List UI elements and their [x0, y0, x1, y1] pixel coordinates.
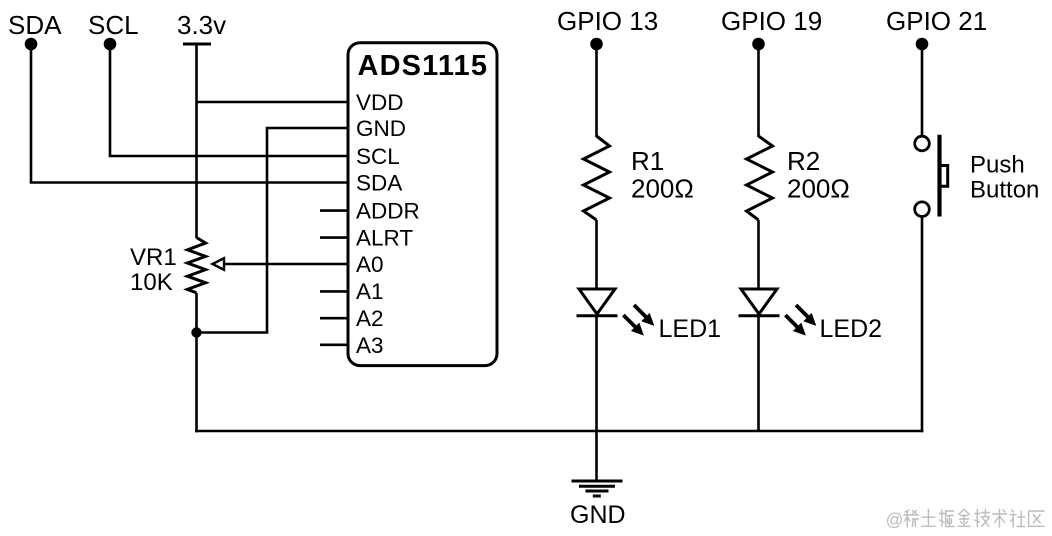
svg-text:LED2: LED2: [820, 315, 883, 343]
svg-text:GND: GND: [356, 116, 406, 141]
wire VDD horizontal: [197, 101, 349, 104]
potentiometer VR1: [187, 238, 205, 293]
svg-text:ALRT: ALRT: [356, 226, 413, 251]
watermark: [886, 509, 1045, 529]
svg-text:SDA: SDA: [356, 171, 402, 196]
svg-text:LED1: LED1: [659, 315, 722, 343]
wire 3.3v vertical down to VR1: [195, 44, 198, 238]
svg-text:VDD: VDD: [356, 90, 404, 115]
resistor R1: [584, 136, 610, 220]
svg-text:GPIO 21: GPIO 21: [886, 6, 987, 36]
svg-text:A1: A1: [356, 279, 384, 304]
wire SCL vertical: [109, 44, 112, 156]
node SCL: [88, 10, 139, 50]
svg-text:200Ω: 200Ω: [787, 174, 850, 204]
svg-text:Push: Push: [970, 152, 1025, 179]
svg-text:SDA: SDA: [8, 10, 62, 40]
node GPIO 19: [721, 6, 822, 50]
svg-text:GND: GND: [570, 501, 626, 529]
svg-text:A3: A3: [356, 333, 384, 358]
svg-text:200Ω: 200Ω: [631, 174, 694, 204]
ground symbol: [572, 481, 623, 496]
wire GND to VR1 bottom horizontal: [197, 331, 269, 334]
svg-text:@: @: [886, 510, 904, 530]
wire LED2 to rail: [757, 316, 760, 431]
svg-text:GPIO 19: GPIO 19: [721, 6, 822, 36]
pin A2: [320, 306, 384, 331]
wire GND pin horizontal: [267, 127, 348, 130]
svg-text:SCL: SCL: [88, 10, 139, 40]
wire GPIO19 to R2: [757, 44, 760, 137]
power 3.3v: [177, 10, 226, 44]
label R1 value: [631, 146, 694, 204]
pin A1: [320, 279, 384, 304]
wire GPIO13 to R1: [595, 44, 598, 137]
wire SCL horizontal to pin: [109, 155, 348, 158]
resistor R2: [747, 136, 773, 220]
svg-text:Button: Button: [970, 176, 1039, 203]
wire rail to ground: [595, 431, 598, 481]
svg-text:SCL: SCL: [356, 144, 400, 169]
wire bottom rail: [195, 430, 923, 433]
svg-text:A0: A0: [356, 252, 384, 277]
node SDA: [8, 10, 62, 50]
svg-text:R1: R1: [631, 146, 664, 176]
svg-text:ADS1115: ADS1115: [358, 50, 489, 82]
wire VR1 bottom vertical: [195, 293, 198, 432]
wire R1 to LED1: [595, 220, 598, 290]
wire R2 to LED2: [757, 220, 760, 290]
LED D2: [739, 289, 817, 336]
pin ADDR: [320, 199, 420, 224]
wire LED1 to rail: [595, 316, 598, 431]
switch S1 push button: [915, 135, 948, 217]
wire GPIO21 to switch: [921, 44, 924, 136]
pin A3: [320, 333, 384, 358]
svg-text:A2: A2: [356, 306, 384, 331]
node GPIO 13: [557, 6, 658, 50]
label R2 value: [787, 146, 850, 204]
svg-text:R2: R2: [787, 146, 820, 176]
svg-text:VR1: VR1: [130, 244, 177, 271]
svg-text:10K: 10K: [130, 269, 173, 296]
wire GND pin vertical: [266, 127, 269, 333]
junction dot at VR1 bottom: [191, 327, 201, 337]
svg-text:ADDR: ADDR: [356, 199, 420, 224]
pin ALRT: [320, 226, 413, 251]
wiper arrow of VR1: [213, 258, 349, 270]
label VR1 value: [130, 244, 177, 296]
svg-text:GPIO 13: GPIO 13: [557, 6, 658, 36]
wire SDA horizontal to pin: [30, 181, 348, 184]
label Push Button: [970, 152, 1039, 204]
wire switch to rail: [921, 217, 924, 433]
IC U1 ADS1115 box: [348, 43, 497, 366]
node GPIO 21: [886, 6, 987, 50]
svg-text:3.3v: 3.3v: [177, 10, 226, 40]
LED D1: [577, 289, 655, 336]
wire SDA vertical: [30, 44, 33, 183]
